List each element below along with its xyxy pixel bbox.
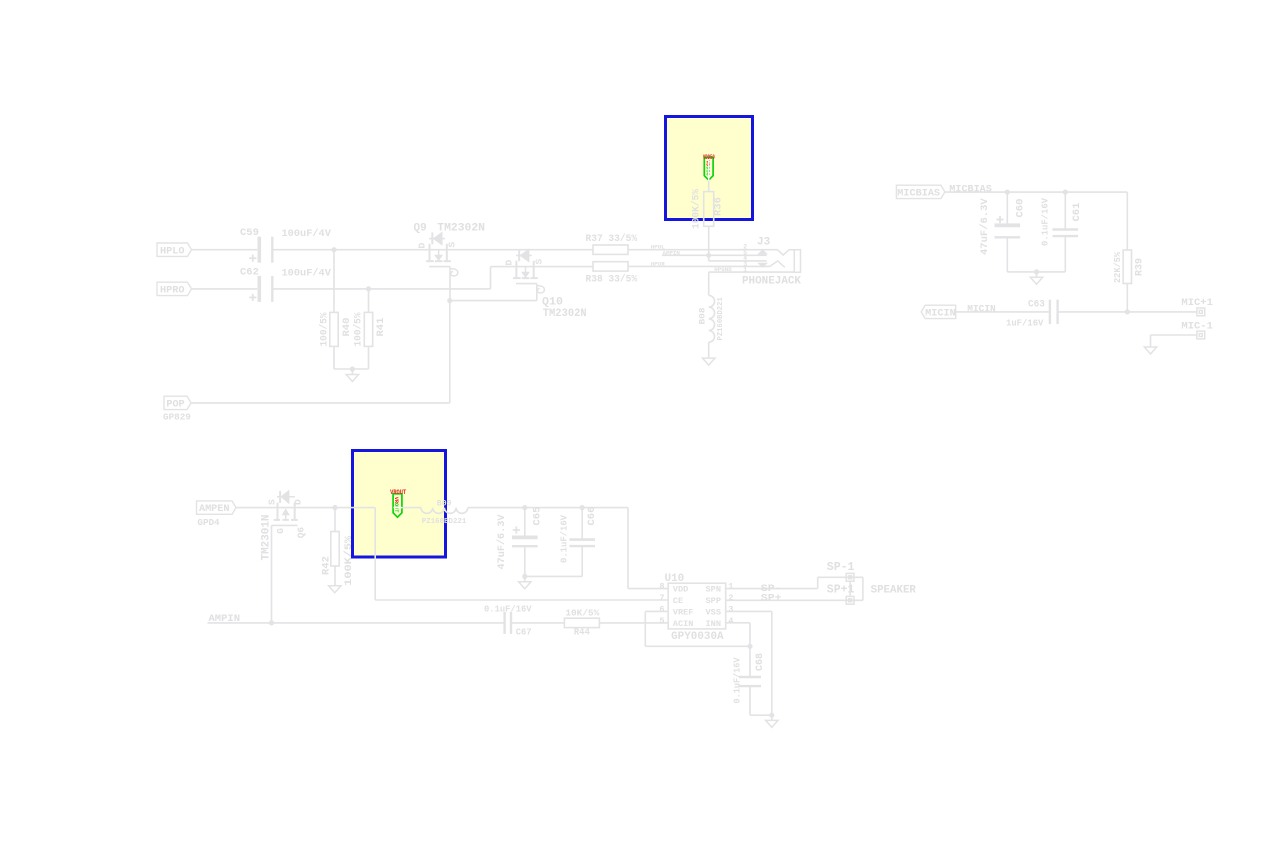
- svg-text:D: D: [293, 499, 304, 505]
- svg-text:R42: R42: [321, 556, 333, 575]
- svg-text:TM2302N: TM2302N: [543, 308, 587, 320]
- svg-text:TM2302N: TM2302N: [437, 223, 485, 235]
- svg-text:MICBIAS: MICBIAS: [949, 184, 992, 196]
- svg-text:S: S: [447, 242, 458, 248]
- svg-text:PZ160BD221: PZ160BD221: [422, 518, 467, 526]
- svg-text:R44: R44: [574, 626, 590, 637]
- svg-text:B08: B08: [699, 307, 708, 324]
- svg-text:CE: CE: [673, 596, 683, 606]
- svg-text:PZ160BD221: PZ160BD221: [717, 297, 725, 341]
- svg-text:6: 6: [659, 604, 664, 614]
- svg-text:HPRO: HPRO: [160, 286, 184, 297]
- svg-text:SPP: SPP: [706, 596, 721, 606]
- svg-text:VROUT: VROUT: [390, 489, 406, 496]
- svg-text:VDD50: VDD50: [703, 154, 715, 161]
- svg-text:J3: J3: [757, 237, 771, 249]
- svg-text:HPOR: HPOR: [651, 260, 665, 267]
- svg-text:HPLO: HPLO: [160, 246, 184, 257]
- svg-text:GPY0030A: GPY0030A: [671, 631, 724, 643]
- svg-text:MICIN: MICIN: [967, 305, 995, 316]
- svg-text:GP829: GP829: [163, 412, 191, 423]
- svg-text:22K/5%: 22K/5%: [1112, 252, 1123, 283]
- svg-text:R41: R41: [375, 318, 387, 337]
- svg-text:SP+: SP+: [761, 593, 782, 605]
- svg-text:R36: R36: [713, 197, 725, 216]
- svg-text:2: 2: [728, 593, 733, 603]
- svg-text:POP: POP: [166, 400, 184, 411]
- svg-text:R39: R39: [1135, 258, 1146, 276]
- svg-text:C60: C60: [1015, 199, 1027, 218]
- svg-text:100K/5%: 100K/5%: [691, 189, 703, 229]
- svg-text:C62: C62: [240, 267, 259, 279]
- svg-text:Q9: Q9: [414, 223, 427, 235]
- svg-text:R38 33/5%: R38 33/5%: [586, 274, 638, 286]
- svg-text:0.1uF/16V: 0.1uF/16V: [1041, 197, 1051, 246]
- svg-text:0.1uF/16V: 0.1uF/16V: [733, 657, 743, 704]
- svg-text:INN: INN: [706, 619, 721, 629]
- svg-text:SPN: SPN: [706, 585, 721, 595]
- svg-text:VROUT: VROUT: [393, 497, 399, 513]
- svg-text:G: G: [275, 528, 286, 534]
- svg-text:D: D: [417, 243, 428, 249]
- svg-text:7: 7: [659, 593, 664, 603]
- svg-text:100uF/4V: 100uF/4V: [282, 268, 332, 280]
- svg-text:AMPEN: AMPEN: [199, 504, 230, 515]
- svg-text:C63: C63: [1028, 299, 1045, 310]
- svg-text:Q6: Q6: [296, 527, 307, 539]
- svg-text:VREF: VREF: [673, 607, 694, 617]
- svg-text:R40: R40: [341, 318, 353, 337]
- svg-text:VSS: VSS: [706, 607, 721, 617]
- svg-text:10K/5%: 10K/5%: [565, 608, 599, 619]
- svg-text:100/5%: 100/5%: [319, 313, 331, 347]
- svg-text:R37 33/5%: R37 33/5%: [586, 233, 638, 245]
- svg-text:GPD4: GPD4: [197, 517, 220, 528]
- svg-text:1: 1: [743, 266, 747, 273]
- svg-text:MICBIAS: MICBIAS: [897, 189, 940, 200]
- svg-text:100/5%: 100/5%: [353, 313, 365, 347]
- svg-text:0.1uF/16V: 0.1uF/16V: [484, 605, 532, 615]
- svg-text:S: S: [267, 499, 278, 505]
- svg-text:SP-1: SP-1: [827, 561, 855, 574]
- svg-text:VDD: VDD: [673, 585, 688, 595]
- svg-text:3: 3: [728, 604, 733, 614]
- svg-text:MICIN: MICIN: [925, 309, 956, 320]
- svg-text:8: 8: [659, 582, 664, 592]
- svg-text:D: D: [504, 260, 515, 266]
- svg-text:47uF/6.3V: 47uF/6.3V: [496, 514, 508, 570]
- svg-text:C67: C67: [516, 627, 532, 637]
- svg-text:PHONEJACK: PHONEJACK: [742, 275, 801, 287]
- svg-text:B09: B09: [437, 500, 452, 509]
- svg-text:C59: C59: [240, 227, 259, 239]
- svg-text:1uF/16V: 1uF/16V: [1006, 318, 1044, 329]
- svg-text:0.1uF/16V: 0.1uF/16V: [560, 514, 570, 563]
- svg-text:4: 4: [728, 616, 733, 626]
- svg-text:S: S: [534, 259, 545, 265]
- svg-text:5: 5: [659, 616, 664, 626]
- svg-text:C65: C65: [532, 507, 544, 526]
- svg-text:SPEAKER: SPEAKER: [871, 584, 917, 596]
- svg-text:C61: C61: [1071, 203, 1083, 222]
- svg-text:C68: C68: [755, 653, 766, 671]
- svg-text:47uF/6.3V: 47uF/6.3V: [979, 198, 991, 255]
- svg-text:100K/5%: 100K/5%: [343, 536, 355, 586]
- svg-text:Q10: Q10: [542, 297, 563, 309]
- svg-text:100uF/4V: 100uF/4V: [282, 228, 332, 240]
- svg-text:1: 1: [728, 582, 733, 592]
- svg-text:ACIN: ACIN: [673, 619, 694, 629]
- svg-text:C66: C66: [586, 507, 598, 526]
